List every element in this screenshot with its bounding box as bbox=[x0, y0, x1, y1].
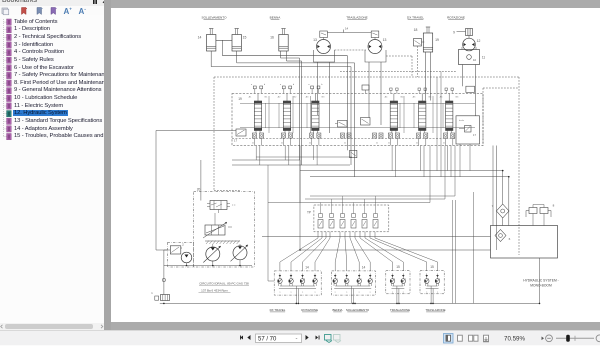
block rail top bbox=[240, 102, 475, 104]
solenoid valve 5 bbox=[362, 205, 367, 228]
small arrow bbox=[542, 337, 545, 341]
collector h160 bbox=[232, 159, 300, 161]
svg-text:A3: A3 bbox=[306, 96, 309, 99]
check valves spool 6 bbox=[444, 133, 455, 146]
spool valve 1 bbox=[254, 94, 261, 134]
svg-text:a: a bbox=[370, 291, 372, 293]
svg-text:a: a bbox=[279, 291, 281, 293]
wire motorL ports bbox=[318, 62, 330, 133]
label TRASLAZIONE bottom bbox=[425, 308, 445, 312]
pilot dash v519 bbox=[518, 77, 520, 255]
pilot fan lines bbox=[280, 232, 438, 271]
svg-text:7: 7 bbox=[492, 204, 494, 208]
svg-text:BENNA: BENNA bbox=[270, 15, 282, 19]
svg-text:SOLLEVAMENTO: SOLLEVAMENTO bbox=[202, 15, 228, 19]
pilot dash c19 bbox=[417, 46, 419, 77]
blue-gray bookmark icon bbox=[37, 8, 42, 15]
check valves spool 4 bbox=[388, 133, 399, 146]
svg-text:BENNA: BENNA bbox=[333, 308, 343, 312]
bracket right motor bbox=[365, 50, 386, 62]
left pilot line bbox=[268, 165, 350, 281]
label TRASLAZIONE bottom bbox=[390, 308, 410, 312]
valve 18 bbox=[414, 39, 425, 47]
swash links bbox=[205, 241, 240, 245]
block right box bbox=[456, 116, 480, 144]
svg-text:A4: A4 bbox=[385, 96, 388, 99]
svg-text:15: 15 bbox=[430, 265, 434, 269]
wire spool 4 down bbox=[392, 146, 396, 177]
last page btn bbox=[316, 336, 319, 340]
svg-text:DX TRAVEL: DX TRAVEL bbox=[270, 308, 286, 312]
svg-text:a: a bbox=[308, 84, 310, 86]
pilot dash top2 bbox=[386, 56, 412, 77]
travel motor 13 right bbox=[368, 38, 386, 54]
svg-text:a: a bbox=[251, 84, 253, 86]
pilot pump 3 bbox=[180, 246, 192, 263]
svg-text:TRASLAZIONE: TRASLAZIONE bbox=[425, 308, 445, 312]
bucket cylinder 16 bbox=[270, 29, 288, 52]
return line right a bbox=[300, 171, 503, 204]
wire x441 bbox=[440, 72, 442, 177]
relief valve 2 bbox=[168, 243, 185, 255]
svg-text:6: 6 bbox=[509, 237, 511, 241]
check valves spool 3 bbox=[310, 133, 321, 146]
blade cylinder 19 bbox=[414, 27, 439, 52]
boom cylinder 15 bbox=[232, 29, 246, 52]
label SOLLEVAMENTO bottom bbox=[346, 308, 370, 312]
port labels bbox=[249, 96, 459, 99]
svg-text:SOLLEVAMENTO: SOLLEVAMENTO bbox=[346, 308, 370, 312]
title text bbox=[523, 279, 559, 288]
small valve below block bbox=[350, 150, 357, 157]
svg-text:b: b bbox=[321, 84, 323, 86]
wire c14-c15 bbox=[216, 39, 232, 41]
wire c16 a bbox=[281, 51, 300, 160]
svg-text:B6: B6 bbox=[456, 97, 459, 99]
svg-text:70.59%: 70.59% bbox=[504, 335, 525, 342]
wire x437 bbox=[436, 77, 438, 171]
pilot group 15 right bbox=[420, 265, 444, 303]
svg-text:HYDRAULIC SYSTEM -: HYDRAULIC SYSTEM - bbox=[523, 279, 559, 283]
wire spool 1 down bbox=[256, 146, 260, 166]
pilot dash v214 bbox=[214, 77, 240, 191]
label SOLLEVAMENTO bbox=[202, 15, 228, 19]
svg-text:-: - bbox=[296, 336, 298, 342]
main pump 2 bbox=[231, 245, 249, 261]
svg-text:brake: brake bbox=[459, 120, 465, 122]
svg-text:B4: B4 bbox=[401, 97, 404, 99]
pilot dash h71 bbox=[340, 71, 457, 73]
tank 5 bbox=[491, 226, 558, 259]
svg-text:A6: A6 bbox=[440, 96, 443, 99]
expand-all icon bbox=[2, 8, 8, 14]
port marks spool 6 bbox=[445, 88, 453, 94]
tank return h250 bbox=[300, 146, 491, 251]
tank drain down bbox=[539, 258, 541, 303]
mid valve B bbox=[361, 118, 371, 126]
relief valve 17 bbox=[234, 129, 246, 143]
pump suction lines bbox=[164, 244, 252, 266]
port squares spool 3 bbox=[308, 84, 323, 94]
svg-text:17: 17 bbox=[473, 133, 476, 137]
svg-text:19: 19 bbox=[238, 97, 242, 101]
drain to tank bbox=[162, 250, 167, 295]
label BENNA bottom bbox=[333, 308, 343, 312]
view mode 3 bbox=[469, 335, 473, 341]
port marks spool 4 bbox=[390, 88, 398, 94]
pilot manifold TP bbox=[307, 205, 389, 232]
main pump 1 bbox=[203, 246, 221, 263]
svg-text:MONO-BOOM: MONO-BOOM bbox=[530, 284, 552, 288]
red bookmark icon bbox=[22, 8, 27, 15]
svg-text:21: 21 bbox=[344, 143, 347, 145]
svg-text:8: 8 bbox=[553, 204, 555, 208]
svg-text:1: 1 bbox=[151, 291, 153, 295]
svg-text:A1: A1 bbox=[249, 96, 252, 99]
svg-text:13: 13 bbox=[313, 38, 317, 42]
port squares spool 1 bbox=[251, 84, 266, 94]
spool valve 2 bbox=[283, 94, 290, 134]
svg-text:b: b bbox=[264, 84, 266, 86]
next page btn bbox=[306, 335, 309, 340]
collector h165 bbox=[232, 164, 350, 166]
svg-text:a: a bbox=[346, 291, 348, 293]
svg-text:B1: B1 bbox=[265, 97, 268, 99]
svg-text:15: 15 bbox=[396, 265, 400, 269]
svg-text:2: 2 bbox=[182, 243, 184, 247]
check valves spool 2 bbox=[281, 133, 292, 146]
svg-text:TP: TP bbox=[307, 211, 311, 215]
servo valve bbox=[203, 213, 232, 238]
svg-text:14: 14 bbox=[198, 36, 202, 40]
inter-spool wires C bbox=[400, 96, 443, 133]
svg-text:DX TRAVEL: DX TRAVEL bbox=[407, 15, 424, 19]
wire right box down bbox=[460, 144, 470, 177]
coil 9 bbox=[453, 29, 472, 39]
svg-text:a: a bbox=[280, 84, 282, 86]
wire c19 a bbox=[425, 52, 427, 101]
pilot group 15 left bbox=[386, 265, 410, 303]
spool valve 4 bbox=[390, 94, 397, 134]
wire spool 3 down bbox=[314, 146, 318, 166]
svg-text:a: a bbox=[392, 291, 394, 293]
swing gearbox 11 bbox=[459, 47, 486, 65]
right long lines bbox=[453, 192, 474, 303]
solenoid valve 4 bbox=[351, 205, 356, 228]
first page btn bbox=[240, 336, 243, 340]
block dash mid bbox=[232, 138, 456, 140]
svg-text:14: 14 bbox=[305, 266, 309, 270]
wire brake link bbox=[327, 27, 371, 33]
view mode 1 (selected) bbox=[444, 334, 454, 344]
svg-text:16: 16 bbox=[270, 36, 274, 40]
suction to pumps bbox=[200, 160, 202, 201]
label BENNA bbox=[270, 15, 282, 19]
pilot dash top1 bbox=[335, 49, 367, 51]
svg-text:a: a bbox=[359, 291, 361, 293]
block right down bbox=[493, 146, 497, 251]
svg-text:17: 17 bbox=[234, 139, 238, 143]
label TRASLAZIONE bbox=[346, 15, 368, 19]
filter 7 bbox=[492, 204, 509, 226]
spool valve 5 bbox=[419, 94, 426, 134]
check valves mid a bbox=[341, 133, 352, 138]
prev view icon bbox=[325, 335, 332, 341]
check valves spool 5 bbox=[417, 133, 428, 146]
left exit line bbox=[156, 131, 236, 251]
svg-text:14: 14 bbox=[345, 27, 349, 31]
collector h157 bbox=[256, 156, 352, 158]
svg-text:a: a bbox=[314, 291, 316, 293]
svg-text:A5: A5 bbox=[413, 96, 416, 99]
svg-text:ROTAZIONE: ROTAZIONE bbox=[301, 308, 318, 312]
svg-text:B2: B2 bbox=[294, 97, 297, 99]
svg-text:B3: B3 bbox=[322, 97, 325, 99]
label ROTAZIONE bbox=[447, 15, 465, 19]
svg-text:9: 9 bbox=[453, 31, 455, 35]
svg-text:a: a bbox=[426, 291, 428, 293]
wire swing down bbox=[463, 65, 476, 116]
travel motor 13 left bbox=[313, 38, 330, 54]
solenoid valve 2 bbox=[329, 205, 334, 228]
wire spool 2 down bbox=[285, 146, 289, 166]
brake valve left bbox=[320, 31, 328, 40]
solenoid valve 1 bbox=[318, 205, 323, 228]
svg-text:10: 10 bbox=[473, 58, 477, 62]
svg-text:B5: B5 bbox=[429, 97, 432, 99]
zoom out circle bbox=[546, 335, 553, 342]
pump box 20 bbox=[194, 188, 255, 268]
svg-text:57 / 70: 57 / 70 bbox=[258, 336, 277, 342]
main return h303 bbox=[160, 302, 540, 304]
wire c15 bottom bbox=[237, 51, 355, 177]
pilot supply collectors bbox=[268, 146, 455, 206]
wire c14 bottom bbox=[211, 51, 351, 165]
wire c19 b bbox=[430, 52, 432, 101]
check valves mid b bbox=[373, 133, 384, 138]
spool valve 6 bbox=[446, 94, 453, 134]
junction dots bbox=[163, 170, 540, 304]
brake valve right bbox=[371, 31, 379, 40]
svg-text:20: 20 bbox=[197, 188, 201, 192]
svg-text:15: 15 bbox=[243, 36, 247, 40]
svg-text:ROTAZIONE: ROTAZIONE bbox=[447, 15, 465, 19]
pilot dash v483 bbox=[483, 88, 519, 146]
check valves spool 1 bbox=[252, 133, 263, 146]
wire c14 down bbox=[223, 40, 348, 150]
check labels bbox=[252, 143, 446, 145]
solenoid valve 6 bbox=[373, 205, 378, 228]
svg-text:a: a bbox=[437, 291, 439, 293]
port box swing bbox=[466, 86, 475, 92]
svg-text:21: 21 bbox=[376, 143, 379, 145]
inter-spool wires A bbox=[266, 96, 280, 133]
svg-text:CIRCUITO IDRAUL. 85-PC GAS 738: CIRCUITO IDRAUL. 85-PC GAS 738 bbox=[199, 281, 249, 285]
svg-text:19: 19 bbox=[435, 38, 439, 42]
label DX TRAVEL bottom bbox=[270, 308, 286, 312]
bracket left motor bbox=[314, 50, 335, 62]
zoom in circle (partially cut) bbox=[596, 335, 600, 342]
spec text bbox=[199, 281, 250, 292]
cooler 8 bbox=[526, 204, 555, 226]
svg-text:137 Ba 6 4334 Rpm: 137 Ba 6 4334 Rpm bbox=[201, 288, 228, 292]
port marks spool 5 bbox=[418, 88, 426, 94]
port squares spool 2 bbox=[280, 84, 295, 94]
svg-text:TRASLAZIONE: TRASLAZIONE bbox=[346, 15, 368, 19]
top mid component bbox=[362, 85, 369, 94]
boom cylinder 14 bbox=[198, 29, 216, 52]
svg-text:A2: A2 bbox=[278, 96, 281, 99]
view mode 4 bbox=[484, 335, 489, 341]
valve block boundary bbox=[232, 94, 483, 146]
page num box bbox=[256, 334, 302, 343]
svg-text:TRASLAZIONE: TRASLAZIONE bbox=[390, 308, 410, 312]
mid valve A bbox=[335, 121, 347, 128]
block rail bottom bbox=[240, 127, 475, 129]
prev page btn bbox=[247, 335, 250, 340]
view mode 2 bbox=[458, 335, 463, 341]
slider bbox=[556, 337, 594, 339]
svg-text:21: 21 bbox=[388, 143, 391, 145]
pilot group 14 left bbox=[274, 266, 321, 304]
wire motorR ports bbox=[369, 62, 381, 125]
strainer tank bbox=[151, 291, 169, 301]
pilot return h236 bbox=[262, 236, 491, 238]
solenoid valve 3 bbox=[340, 205, 345, 228]
svg-text:a: a bbox=[403, 291, 405, 293]
inter-spool wires B bbox=[293, 96, 311, 133]
next view icon (disabled) bbox=[334, 335, 341, 341]
svg-text:a: a bbox=[302, 291, 304, 293]
wire c16 b bbox=[287, 51, 302, 165]
label DX TRAVEL bbox=[407, 15, 424, 19]
wire spool 5 down bbox=[420, 146, 424, 177]
swing motor 12 bbox=[463, 38, 481, 51]
svg-text:b: b bbox=[293, 84, 295, 86]
pilot box bbox=[168, 242, 194, 267]
svg-text:13: 13 bbox=[383, 38, 387, 42]
svg-text:18: 18 bbox=[414, 28, 418, 32]
svg-text:11: 11 bbox=[482, 56, 486, 60]
spool valve 3 bbox=[312, 94, 319, 134]
purple bookmark icon bbox=[51, 8, 56, 15]
regulator valve bbox=[207, 201, 236, 214]
pilot group 14 right bbox=[332, 266, 376, 304]
svg-text:a: a bbox=[290, 291, 292, 293]
wire spool 6 down bbox=[447, 146, 451, 177]
label ROTAZIONE bottom bbox=[301, 308, 318, 312]
pilot dash h77 bbox=[214, 76, 519, 78]
svg-text:14: 14 bbox=[362, 266, 366, 270]
svg-text:12: 12 bbox=[477, 39, 481, 43]
return line right b bbox=[310, 177, 509, 226]
svg-text:a: a bbox=[335, 291, 337, 293]
